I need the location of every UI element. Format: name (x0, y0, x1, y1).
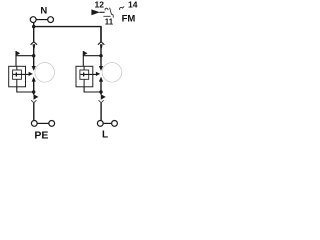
connector plug right top (100, 44, 103, 48)
wire top bus (34, 27, 101, 42)
contact 12 seat (105, 8, 108, 10)
wire right mid1 (100, 48, 102, 67)
plug arrow module right (96, 72, 100, 76)
wire right lower (100, 103, 102, 121)
wire module bottom link right (84, 87, 101, 92)
plug contact up arrow left (32, 77, 36, 82)
wire left lower (33, 103, 35, 121)
svg-text:12: 12 (95, 0, 105, 10)
svg-text:L: L (102, 130, 108, 140)
contact lever FM (110, 8, 114, 18)
node N junction (32, 25, 35, 28)
disconnect flag right bottom (101, 94, 106, 100)
node right lower junction (99, 90, 102, 93)
status circle right (102, 63, 122, 83)
svg-text:11: 11 (105, 18, 114, 27)
contact 14 seat (120, 6, 124, 9)
status circle left (35, 63, 55, 83)
plug contact up arrow right (99, 77, 103, 82)
plug arrow module left (29, 72, 33, 76)
svg-text:FM: FM (122, 13, 136, 24)
module box right (76, 66, 93, 87)
svg-text:14: 14 (128, 0, 138, 10)
varistor right (80, 70, 89, 79)
connector socket right top (98, 42, 104, 45)
plug contact down arrow right (99, 66, 103, 71)
terminal L (97, 121, 117, 127)
wire right mid2 (100, 81, 102, 94)
wire right branch upper (100, 27, 102, 42)
connector socket left top (31, 42, 37, 45)
node left lower junction (32, 90, 35, 93)
disconnect flag module top (16, 51, 20, 56)
terminal PE (31, 121, 54, 127)
module box left (9, 66, 26, 87)
node left upper junction (32, 54, 35, 57)
connector socket right bottom (99, 100, 104, 103)
wire left mid2 (33, 81, 35, 94)
wire module top link right (83, 56, 101, 67)
wire module top link (16, 56, 34, 67)
wire left branch upper (33, 27, 35, 42)
wire N drop (33, 23, 35, 28)
connector plug left top (33, 44, 36, 48)
svg-text:PE: PE (34, 130, 48, 140)
node right upper junction (99, 54, 102, 57)
FM actuator arrow (91, 9, 100, 15)
svg-text:N: N (40, 5, 47, 16)
disconnect flag module top right (83, 51, 87, 56)
connector socket left bottom (31, 100, 36, 103)
disconnect flag left bottom (34, 94, 39, 100)
varistor left (13, 70, 22, 79)
contact pivot bar FM (103, 15, 110, 17)
plug contact down arrow left (32, 66, 36, 71)
terminal N (30, 17, 53, 23)
wire left mid1 (33, 48, 35, 67)
wire module bottom link (17, 87, 34, 92)
wire FM arrow link (100, 11, 105, 13)
